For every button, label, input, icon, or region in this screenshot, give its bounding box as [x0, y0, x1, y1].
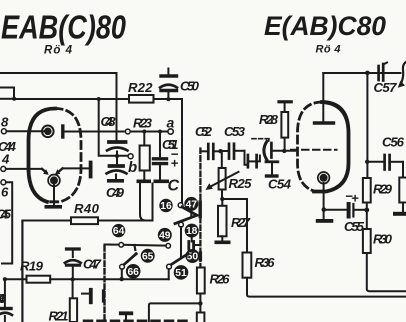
switch arm (upper chevron): [175, 207, 197, 224]
diode plate bar (V1): [89, 163, 93, 177]
svg-text:R22: R22: [128, 80, 153, 95]
resistor R36: [246, 199, 248, 253]
capacitor C46 (bottom left, cut): [4, 279, 6, 307]
diode anode arrow 2 (V1): [58, 168, 63, 172]
node C47/R21 junction: [71, 277, 75, 281]
svg-text:R25: R25: [229, 176, 253, 191]
node (wire y279 to pivot4): [120, 277, 124, 281]
node C50 tap: [166, 97, 170, 101]
wire grid/anode to node a: [65, 131, 168, 133]
svg-text:18: 18: [186, 226, 198, 237]
svg-text:C55: C55: [344, 219, 365, 234]
ground bar (R23): [137, 180, 152, 184]
svg-text:b: b: [128, 159, 137, 176]
tube V1 envelope (dashed right): [49, 109, 81, 202]
resistor R23: [143, 132, 145, 146]
capacitor C49: [107, 158, 127, 179]
svg-text:C53: C53: [224, 124, 246, 139]
diode anode arrow 1 (V1): [42, 169, 47, 173]
trimmer dashes: [252, 138, 269, 140]
contact 18 stem + contact bars: [191, 238, 193, 242]
node b junction dot: [115, 154, 119, 158]
wire R19 input: [3, 277, 7, 281]
svg-text:8: 8: [1, 115, 9, 130]
svg-text:6: 6: [1, 185, 9, 200]
wire R19 to C47 node: [50, 278, 122, 280]
svg-text:C: C: [168, 178, 180, 195]
node R23 tap: [142, 130, 146, 134]
anode bar (triode V1): [61, 126, 64, 137]
resistor R40: [71, 217, 98, 224]
svg-text:C47: C47: [83, 257, 102, 272]
grid dashed line (V2): [291, 149, 337, 151]
potentiometer arrow (right edge): [401, 62, 406, 84]
cathode (triode V1): [44, 128, 52, 136]
svg-text:65: 65: [142, 251, 154, 262]
capacitor C48: [107, 142, 128, 156]
wire bottom jog: [149, 303, 201, 322]
resistor R26: [197, 268, 205, 294]
svg-text:C54: C54: [268, 177, 292, 192]
node a terminal: [168, 129, 173, 134]
wire to R22: [14, 98, 129, 100]
wire riser to C51 ground: [152, 184, 154, 221]
connector circle (wire start): [119, 243, 124, 248]
wire riser to pivot3: [168, 269, 170, 279]
resistor R22: [129, 95, 154, 103]
node junction at resistor output: [12, 97, 16, 101]
ground bar (V2 cathode): [316, 219, 334, 223]
ground bar (C54): [265, 174, 279, 177]
resistor R28: [284, 138, 286, 151]
switch link line (right, dashed): [199, 149, 201, 268]
wire R40 to risers: [98, 220, 153, 222]
node R29/R30/C55: [364, 208, 369, 213]
svg-text:E(AB)C80: E(AB)C80: [264, 11, 386, 41]
wire vertical feed (C56/R29): [366, 73, 368, 178]
ground bar (C49): [107, 179, 124, 183]
ground bar (V1 cathode): [45, 205, 63, 209]
wire R25 to R27/R36: [222, 190, 247, 200]
resistor (right edge, cut): [402, 162, 404, 178]
switch: contact 51: [174, 265, 189, 280]
contact stud on row wire: [133, 245, 136, 250]
connector circle on a-wire: [125, 129, 130, 134]
tube V2 envelope (solid right): [314, 102, 349, 192]
node C52/C53/R25: [218, 149, 222, 153]
pin 4 terminal: [1, 166, 6, 171]
node cathode junction: [322, 207, 327, 212]
resistor R29: [363, 178, 371, 203]
switch link line (left, dashed): [103, 246, 105, 322]
switch: contact 16: [159, 199, 172, 212]
link contact blobs: [198, 202, 201, 217]
capacitor C57: [377, 66, 380, 80]
svg-text:C57: C57: [374, 80, 398, 95]
switch arm (lower right): [171, 254, 188, 265]
cathode (V2): [320, 174, 328, 182]
svg-text:C48: C48: [101, 114, 117, 129]
svg-text:R26: R26: [210, 272, 231, 287]
svg-text:C45: C45: [0, 207, 12, 222]
press contact plate: [82, 293, 89, 295]
svg-text:+: +: [351, 191, 359, 206]
svg-text:C46: C46: [0, 291, 7, 306]
capacitor C56: [367, 161, 383, 163]
wire R30 to right: [367, 253, 406, 291]
svg-text:EAB(C)80: EAB(C)80: [1, 9, 126, 46]
anode lead (V2): [322, 73, 324, 121]
resistor R30: [363, 229, 371, 253]
capacitor C52: [200, 150, 206, 152]
link contact bar (left link): [102, 291, 105, 301]
wire pivot2 down: [180, 227, 182, 257]
pin 6 terminal: [1, 180, 6, 185]
node R26 bottom: [198, 301, 202, 305]
component box (bottom, cut): [197, 313, 205, 322]
resistor R19: [27, 276, 51, 283]
C54 lower plate to ground: [266, 160, 278, 163]
capacitor C53: [222, 150, 228, 152]
svg-text:R29: R29: [373, 182, 393, 197]
trimmer capacitor C54 assembly: [245, 151, 247, 165]
cathode lead (V2): [323, 183, 325, 219]
switch: stem contact 47: [190, 211, 192, 216]
svg-text:C50: C50: [180, 79, 200, 94]
wire R36 to bus: [247, 278, 406, 297]
switch arm (lower left): [124, 254, 137, 265]
svg-text:R19: R19: [20, 259, 44, 274]
wire riser to R23 ground: [140, 184, 146, 221]
svg-text:51: 51: [175, 268, 187, 279]
wire pin8 to cathode: [6, 130, 44, 132]
C54 straight plate: [270, 143, 273, 158]
wire R40 lead: [22, 220, 71, 222]
capacitor C55: [324, 209, 346, 211]
ground bar (C51): [154, 180, 170, 184]
wire long vertical bus: [21, 222, 23, 322]
svg-text:Rö 4: Rö 4: [316, 43, 341, 55]
wire b branch: [99, 99, 128, 156]
node R28 tap: [282, 149, 286, 153]
wire anode top rail: [323, 72, 400, 74]
node C51 tap: [158, 130, 162, 134]
svg-text:64: 64: [113, 226, 125, 237]
svg-text:R23: R23: [133, 116, 153, 131]
cathode lead to ground: [53, 185, 55, 205]
switch: contact 49: [158, 228, 172, 242]
switch: contact 65: [141, 249, 155, 263]
potentiometer R25: [221, 153, 223, 168]
wire contact row (to 49): [110, 245, 166, 246]
ground bar (R27): [215, 241, 231, 245]
node C56 branch: [365, 160, 369, 164]
switch: contact 64: [112, 224, 125, 237]
svg-text:R40: R40: [74, 201, 100, 216]
pivot contact (lower right arm): [167, 264, 172, 269]
resistor R27: [221, 199, 223, 206]
pivot contact (lower left arm): [120, 264, 125, 269]
switch: pivot contact (top): [178, 203, 183, 208]
wire pin6 jog: [2, 182, 12, 263]
anode bar (V2): [315, 121, 334, 124]
wire top rail: [0, 73, 117, 140]
svg-text:R36: R36: [255, 255, 276, 270]
wire R22 to corner: [154, 99, 183, 203]
node C57 branch: [365, 71, 370, 76]
capacitor C47: [65, 249, 81, 279]
chassis terminal T: [119, 311, 133, 315]
tube V2 envelope (dashed left): [298, 102, 323, 191]
tube V1 envelope (solid left): [29, 109, 56, 202]
svg-text:C52: C52: [195, 124, 213, 139]
pin 8 terminal: [1, 129, 6, 134]
switch: contact 47: [184, 197, 198, 211]
wire diode2 to plate bar: [63, 167, 89, 169]
capacitor C51: [159, 132, 161, 158]
svg-text:16: 16: [160, 201, 172, 212]
C54 curved plate: [264, 142, 267, 160]
node junction b-branch: [97, 97, 101, 101]
svg-text:+: +: [171, 156, 179, 171]
svg-text:a: a: [167, 115, 175, 131]
switch: pivot contact 2: [179, 222, 184, 227]
capacitor C50: [160, 69, 177, 100]
svg-text:C49: C49: [106, 185, 125, 200]
svg-text:4: 4: [1, 152, 10, 167]
svg-text:66: 66: [127, 267, 139, 278]
wire pin4 to diode: [6, 168, 42, 170]
resistor R21: [72, 279, 74, 298]
cathode (diode V1): [50, 176, 58, 184]
svg-text:R28: R28: [259, 112, 279, 127]
ground bar (right edge): [393, 212, 406, 216]
chassis dashed line: [84, 320, 192, 322]
switch: contact 66: [126, 264, 141, 279]
resistor (left edge, cut): [0, 88, 14, 99]
wire C54 to grid: [273, 150, 296, 152]
svg-text:C56: C56: [382, 135, 405, 150]
svg-text:49: 49: [159, 230, 171, 241]
svg-text:R30: R30: [373, 232, 393, 247]
node b terminal: [128, 154, 133, 159]
switch: contact 50: [185, 249, 199, 263]
svg-text:Rö 4: Rö 4: [44, 45, 73, 57]
svg-text:R21: R21: [49, 309, 69, 322]
contact 49 end circle: [166, 244, 171, 249]
switch: contact 18: [185, 224, 199, 238]
